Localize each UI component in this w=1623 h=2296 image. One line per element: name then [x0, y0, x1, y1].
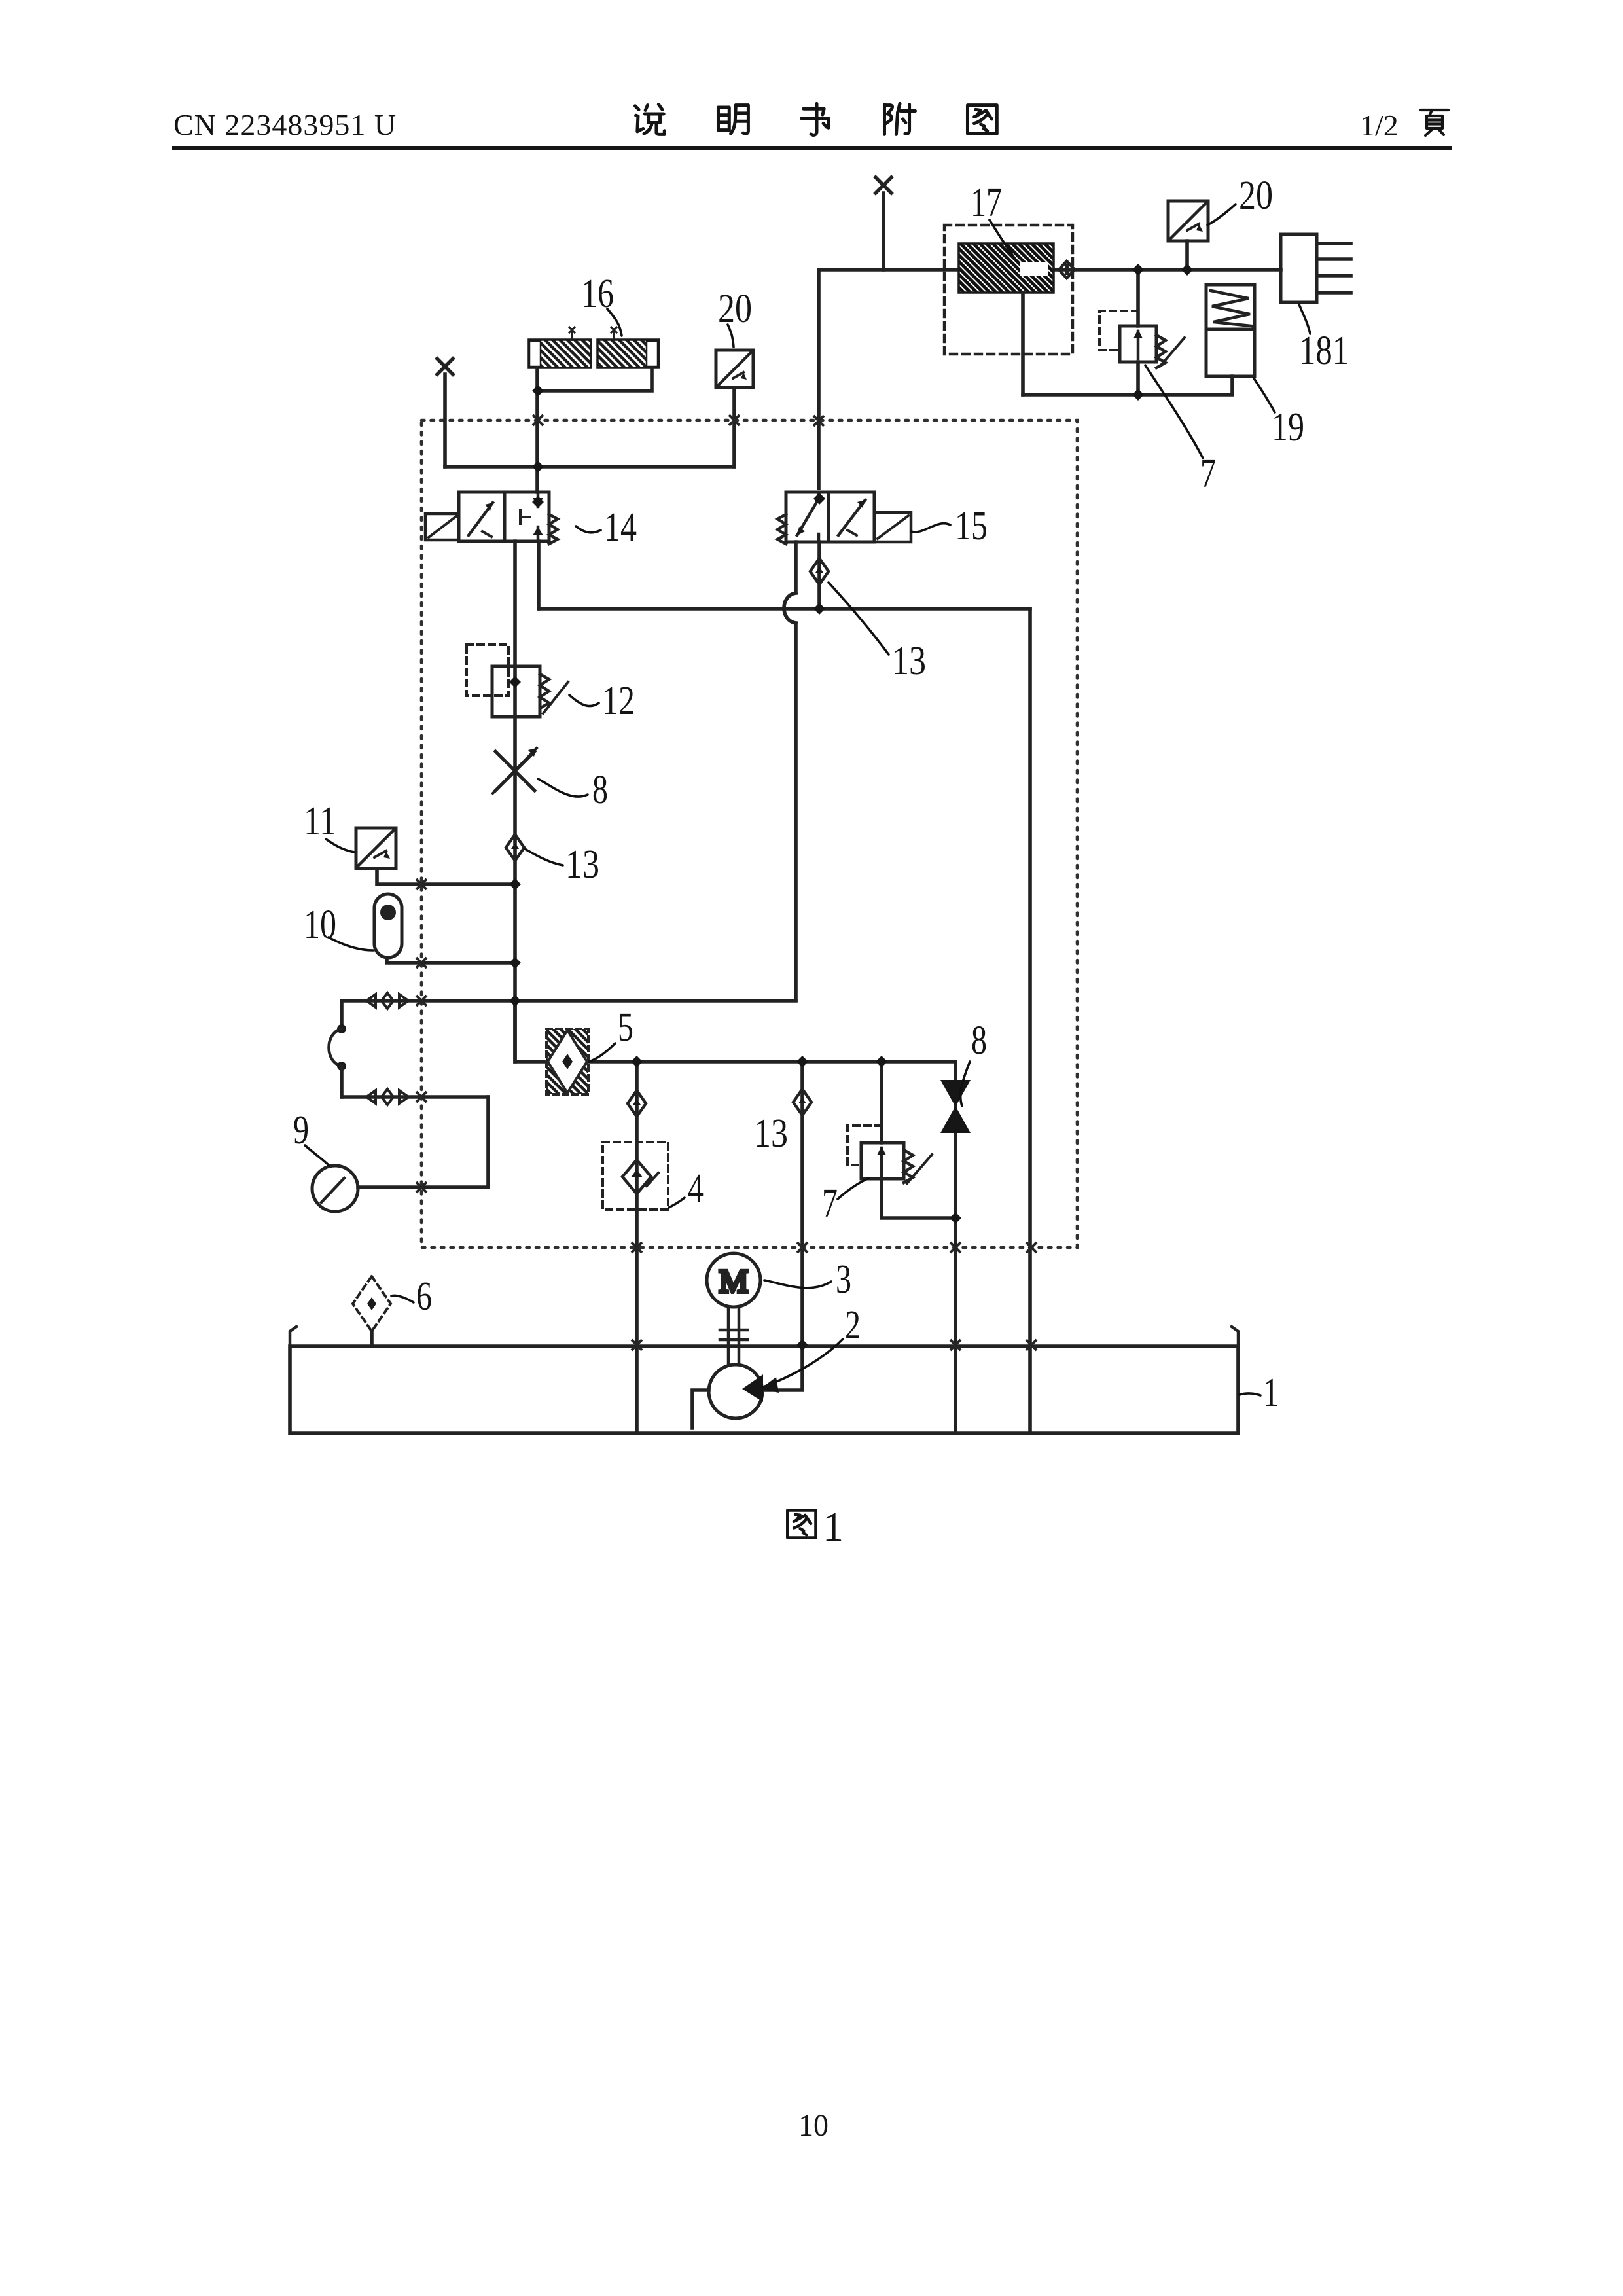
solenoid coils 16 [529, 340, 591, 368]
svg-text:M: M [719, 1263, 748, 1299]
wire: branch to check 4 and tank [635, 1062, 639, 1430]
check coupling on main line right of 17 [1059, 261, 1075, 278]
svg-text:11: 11 [304, 799, 336, 844]
header title char fu [883, 104, 886, 134]
svg-text:20: 20 [718, 287, 752, 331]
svg-text:181: 181 [1299, 329, 1349, 373]
header rule [172, 146, 1452, 150]
wire: left vent stem [443, 374, 447, 467]
header right char ye [1421, 109, 1448, 111]
svg-text:10: 10 [798, 2108, 829, 2143]
solenoid actuator of valve 14 [425, 514, 459, 540]
pressure valve 12 body [492, 666, 540, 717]
svg-text:16: 16 [581, 272, 614, 316]
check valve 13 (suction) [793, 1089, 811, 1115]
pressure sensor 11 [356, 828, 396, 869]
svg-text:13: 13 [754, 1111, 788, 1156]
valve 14 left position box [459, 492, 505, 541]
flexible hose arc [329, 1029, 342, 1066]
wire: accumulator branch [387, 958, 515, 963]
wire: bridge lower line [342, 1095, 488, 1099]
spring unit 19 [1206, 285, 1255, 376]
wire: shutoff drop x1460 [954, 1062, 957, 1430]
crossing ticks [533, 415, 543, 425]
wire: sensor 20 stub [1185, 241, 1189, 270]
wire: main top pressure line [819, 268, 1281, 272]
wire: 181 output lines [1317, 243, 1351, 293]
solenoid actuator of valve 15 [874, 512, 911, 542]
valve 15 spring (left) [777, 514, 786, 544]
svg-text:12: 12 [602, 679, 635, 723]
check valve 13 (below valve 15) [810, 558, 829, 584]
svg-text:7: 7 [822, 1181, 838, 1226]
check valve 13 (on riser) [506, 834, 524, 861]
accumulator 10 [374, 894, 402, 958]
vent plug X (left) [437, 359, 453, 374]
pressure sensor 20 (left) [716, 350, 753, 387]
hydraulic pump 2 [709, 1365, 762, 1418]
valve 12 spring [540, 674, 549, 708]
svg-text:19: 19 [1272, 405, 1304, 450]
svg-text:13: 13 [892, 639, 926, 683]
wire: suction branch to pump [763, 1062, 802, 1390]
header title char ming [718, 107, 729, 130]
breather filter 6 [353, 1276, 391, 1331]
relief valve 7 (top) pilot dashed line [1099, 311, 1138, 350]
valve 15 right position box [829, 492, 874, 542]
junction dots [1132, 264, 1144, 276]
svg-text:20: 20 [1239, 173, 1273, 218]
check valve 13 (above 4) [628, 1090, 646, 1117]
check valve 4 dashed box [603, 1142, 668, 1210]
wire: U pipe under 16 [537, 368, 652, 391]
relief valve 7 (bottom) body [861, 1143, 904, 1179]
svg-text:6: 6 [416, 1274, 432, 1319]
svg-text:CN 223483951 U: CN 223483951 U [173, 108, 397, 141]
wire: transverse return line y930 [539, 607, 1030, 611]
tank 1 [290, 1346, 1238, 1433]
relief valve 7 (top) spring [1156, 335, 1166, 368]
wire: valve14 right drop [537, 541, 541, 609]
wire: bridge left leg with hose [340, 1001, 344, 1029]
wire: return drop to tank x1574 [1028, 609, 1032, 1430]
svg-text:17: 17 [971, 181, 1002, 225]
wire: filter 6 stem [370, 1331, 374, 1346]
valve 14 spring [549, 514, 558, 544]
pilot valve 12 dashed pilot box [467, 645, 508, 696]
svg-text:14: 14 [604, 505, 637, 550]
shutoff valve 8 (bottom) [940, 1080, 971, 1133]
svg-text:1/2: 1/2 [1360, 109, 1399, 142]
svg-text:3: 3 [836, 1257, 851, 1302]
quick coupling (lower) [366, 1090, 408, 1103]
wire: distribution line y1622 [515, 1001, 955, 1062]
wire: valve 7 top inlet [1136, 270, 1140, 395]
svg-text:13: 13 [565, 842, 599, 887]
wire: vent stem [882, 193, 885, 270]
svg-text:1: 1 [823, 1503, 844, 1550]
svg-text:8: 8 [971, 1018, 987, 1063]
component 17 heat-exchanger hatched body [959, 243, 1054, 293]
check valve 4 symbol [622, 1160, 651, 1194]
coil pins [572, 329, 614, 340]
svg-text:8: 8 [592, 768, 608, 812]
connector block 181 [1281, 234, 1317, 302]
valve 14 right position box [505, 492, 549, 541]
wire: pump suction elbow [692, 1390, 709, 1428]
relief valve 7 (bottom) pilot dashed line [847, 1126, 882, 1165]
dotted enclosure (valve block boundary) [421, 420, 1077, 1247]
wire: sensor 11 branch [377, 869, 515, 884]
svg-text:1: 1 [1263, 1371, 1279, 1415]
wire: valve 7B inlet [882, 1062, 955, 1218]
throttle 8 (adjustable) [495, 751, 535, 791]
filter 5 [546, 1029, 588, 1094]
wire: pilot line y713 [445, 465, 734, 469]
wire: drain line to 19 [1023, 376, 1232, 395]
wire: cross line y1529 [342, 999, 796, 1003]
header title char shuo [635, 106, 639, 110]
vent plug X (top, near 17) [876, 177, 891, 193]
relief valve 7 (top) body [1120, 326, 1156, 362]
pressure gauge 9 [312, 1166, 358, 1211]
svg-text:7: 7 [1200, 452, 1216, 496]
wire: drain stub below 17 [1021, 293, 1025, 395]
wire: valve15 right-bottom drop with check [817, 542, 821, 609]
motor-pump shaft [728, 1307, 739, 1365]
wire: 16 down to valve 14 [535, 391, 539, 492]
wire: valve14 left drop (main internal riser) [513, 541, 517, 1062]
relief valve 7 (bottom) spring [904, 1150, 913, 1183]
svg-text:10: 10 [304, 903, 336, 947]
component 17 dashed enclosure [944, 225, 1073, 354]
quick coupling (upper) [366, 994, 408, 1007]
wire: riser to valve 15 [817, 270, 821, 488]
svg-text:9: 9 [293, 1108, 309, 1153]
reference numeral labels with leader lines [990, 220, 1016, 260]
electric motor 3 [707, 1253, 760, 1307]
header title char tu [967, 105, 997, 134]
header title char shu [804, 109, 824, 115]
svg-text:2: 2 [845, 1303, 861, 1348]
svg-text:4: 4 [688, 1166, 704, 1211]
svg-text:15: 15 [955, 504, 988, 548]
pressure sensor 20 (top right) [1168, 201, 1208, 241]
svg-text:5: 5 [618, 1005, 633, 1050]
figure caption [787, 1510, 815, 1537]
wire: valve15 left-bottom drop with hose hop [794, 542, 798, 593]
wire: drop to gauge line [358, 1097, 488, 1187]
valve 15 left position box [786, 492, 829, 542]
wire: sensor 20L stub [732, 387, 736, 467]
